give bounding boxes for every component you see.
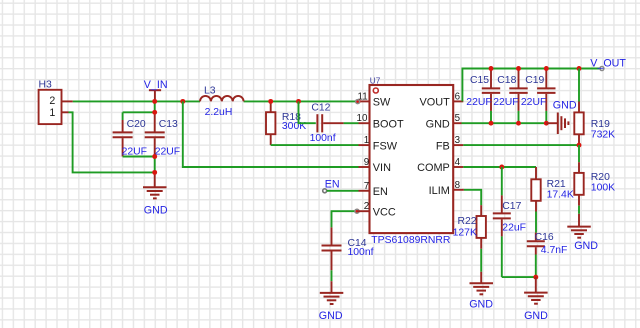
wire ILIM to R22 — [464, 190, 481, 205]
svg-text:5: 5 — [455, 113, 461, 124]
svg-text:100nf: 100nf — [348, 247, 374, 258]
svg-text:100nf: 100nf — [310, 133, 336, 144]
svg-text:C16: C16 — [535, 232, 554, 243]
svg-text:17.4K: 17.4K — [547, 190, 574, 201]
svg-text:GND: GND — [553, 100, 577, 112]
resistor R21 — [531, 167, 574, 233]
node C12 branch — [296, 99, 301, 104]
svg-text:C15: C15 — [470, 75, 489, 86]
ground under R22 — [469, 272, 493, 311]
pin 8 ILIM — [429, 180, 464, 197]
svg-text:127K: 127K — [453, 227, 477, 238]
wire FB — [463, 144, 579, 146]
pin 11 SW — [356, 91, 391, 108]
svg-text:2: 2 — [364, 201, 369, 212]
node gnd rail C19 — [544, 121, 549, 126]
node gnd rail C15 — [489, 121, 494, 126]
pin 7 EN — [359, 181, 388, 198]
wire C12 branch — [299, 101, 316, 123]
pin 9 VIN — [359, 157, 391, 174]
svg-text:VOUT: VOUT — [420, 97, 451, 109]
node R18 top — [268, 99, 273, 104]
svg-text:R21: R21 — [547, 179, 566, 190]
capacitor C14 — [322, 227, 374, 281]
pin 2 VCC — [357, 201, 396, 218]
net flag V_IN — [144, 79, 168, 102]
node COMP/C17 — [499, 165, 504, 170]
svg-text:4: 4 — [455, 157, 461, 168]
node VCC pin — [355, 209, 360, 214]
svg-text:ILIM: ILIM — [429, 185, 450, 197]
svg-text:2.2uH: 2.2uH — [205, 107, 233, 118]
svg-text:VIN: VIN — [373, 162, 391, 174]
node C20/C13 top — [152, 110, 157, 115]
svg-text:EN: EN — [373, 186, 388, 198]
ground under input rail — [143, 172, 168, 216]
svg-text:GND: GND — [524, 310, 548, 322]
op-amp U7 body TPS61089RNRR — [370, 76, 454, 246]
pin 1 stub of H3 — [62, 111, 69, 113]
node C20/C13 bottom — [152, 154, 157, 159]
svg-text:VCC: VCC — [373, 206, 396, 218]
wire FSW — [271, 144, 359, 146]
svg-text:U7: U7 — [370, 76, 381, 85]
svg-text:732K: 732K — [591, 129, 615, 140]
capacitor C18 — [493, 69, 528, 124]
capacitor C17 — [493, 167, 526, 277]
resistor R19 — [574, 69, 615, 146]
svg-text:3: 3 — [455, 135, 461, 146]
svg-text:C20: C20 — [127, 119, 146, 130]
svg-text:22UF: 22UF — [493, 97, 518, 108]
net flag EN — [323, 179, 340, 193]
node V_IN junction — [152, 99, 157, 104]
capacitor C13 — [145, 112, 180, 172]
svg-text:EN: EN — [325, 179, 340, 191]
wire GND rail pin5 — [462, 122, 547, 124]
wire V_IN main rail left — [73, 100, 200, 102]
node C16/C17 gnd — [533, 275, 538, 280]
node FB — [577, 143, 582, 148]
connector H3 — [39, 79, 62, 124]
resistor R18 — [266, 101, 306, 145]
svg-text:GND: GND — [426, 118, 450, 130]
svg-text:SW: SW — [373, 97, 391, 109]
ground under C16 — [524, 277, 548, 322]
node top rail R19 — [577, 66, 582, 71]
pin 5 GND — [426, 113, 462, 130]
svg-text:GND: GND — [574, 240, 598, 252]
svg-text:H3: H3 — [39, 79, 53, 90]
svg-text:6: 6 — [455, 91, 461, 102]
net flag V_OUT — [590, 57, 626, 70]
svg-text:1: 1 — [49, 107, 55, 119]
wire C20 bottom link — [123, 156, 155, 158]
capacitor C20 — [113, 112, 155, 157]
svg-text:C18: C18 — [497, 75, 516, 86]
svg-text:22UF: 22UF — [466, 97, 491, 108]
node top rail C15 — [489, 66, 494, 71]
capacitor C19 — [521, 69, 556, 124]
svg-text:9: 9 — [364, 157, 369, 168]
wire BOOT — [344, 122, 359, 124]
svg-text:FB: FB — [436, 140, 450, 152]
svg-text:C13: C13 — [159, 119, 178, 130]
wire VOUT riser — [462, 69, 601, 102]
pin 2 stub of H3 — [62, 100, 73, 102]
ground sideways on pin5 rail — [546, 100, 577, 134]
svg-text:GND: GND — [144, 204, 168, 216]
node top rail C19 — [544, 66, 549, 71]
svg-text:FSW: FSW — [373, 140, 398, 152]
svg-text:7: 7 — [364, 181, 369, 192]
svg-text:4.7nF: 4.7nF — [541, 245, 568, 256]
pin 6 VOUT — [420, 91, 464, 108]
svg-text:C12: C12 — [311, 103, 330, 114]
svg-text:2: 2 — [49, 95, 55, 107]
svg-text:C17: C17 — [502, 201, 521, 212]
wire C20 top link — [123, 111, 155, 113]
pin 3 FB — [436, 135, 463, 152]
wire C17 bottom to C16 node — [502, 276, 536, 278]
svg-text:22UF: 22UF — [521, 97, 546, 108]
pin 4 COMP — [417, 157, 463, 174]
capacitor C15 — [466, 69, 500, 124]
pin 10 BOOT — [357, 113, 405, 130]
wire EN — [327, 190, 359, 192]
svg-text:TPS61089RNRR: TPS61089RNRR — [371, 235, 451, 246]
svg-text:COMP: COMP — [417, 162, 450, 174]
svg-text:10: 10 — [357, 113, 368, 124]
svg-text:1: 1 — [364, 135, 369, 146]
svg-text:22UF: 22UF — [155, 146, 180, 157]
wire V_IN main rail right of inductor — [244, 100, 359, 102]
wire V_IN junction down to cap node — [154, 101, 156, 112]
node top rail C18 — [516, 66, 521, 71]
svg-text:100K: 100K — [591, 182, 615, 193]
inductor L3 — [200, 85, 244, 118]
resistor R22 — [453, 205, 486, 272]
svg-text:22uF: 22uF — [502, 223, 526, 234]
svg-text:R22: R22 — [457, 216, 476, 227]
svg-text:V_IN: V_IN — [144, 79, 168, 91]
wire COMP — [463, 166, 536, 168]
capacitor C16 — [527, 232, 568, 277]
svg-text:GND: GND — [319, 310, 343, 322]
pin 1 FSW — [359, 135, 398, 152]
svg-text:C19: C19 — [525, 75, 544, 86]
wire H3 pin1 to ground rail — [69, 112, 155, 172]
svg-text:L3: L3 — [204, 85, 216, 96]
node VIN branch — [180, 99, 185, 104]
svg-text:GND: GND — [469, 299, 493, 311]
svg-text:BOOT: BOOT — [373, 118, 404, 130]
wire VCC — [332, 211, 358, 227]
ground under R20 — [567, 214, 598, 252]
wire VIN branch — [183, 101, 359, 167]
ground under C14 — [319, 281, 344, 322]
svg-text:8: 8 — [455, 180, 461, 191]
resistor R20 — [574, 145, 615, 214]
capacitor C12 — [310, 103, 344, 144]
node ground rail — [152, 170, 157, 175]
node gnd rail C18 — [516, 121, 521, 126]
svg-text:V_OUT: V_OUT — [590, 57, 626, 69]
